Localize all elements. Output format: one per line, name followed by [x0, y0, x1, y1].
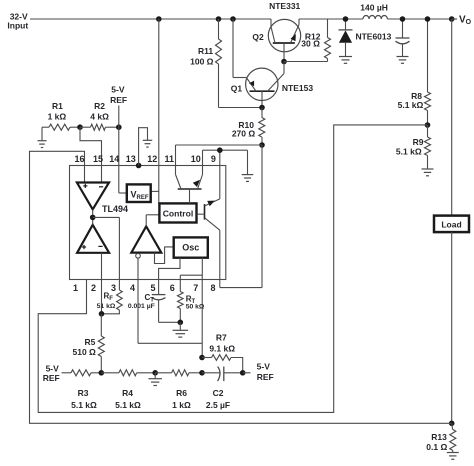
ground of output cap	[397, 57, 409, 64]
svg-text:5-V: 5-V	[111, 85, 125, 95]
node pin 13	[136, 163, 142, 169]
op-amp error amp 2 (bottom)	[77, 225, 109, 253]
label R7 9.1kΩ	[209, 333, 235, 354]
svg-text:12: 12	[147, 154, 157, 164]
svg-text:140 µH: 140 µH	[360, 2, 388, 12]
svg-text:100 Ω: 100 Ω	[190, 57, 214, 67]
label R4 5.1kΩ	[115, 388, 141, 410]
svg-text:0.1 Ω: 0.1 Ω	[426, 442, 447, 452]
node R8/R9 junction	[425, 122, 431, 128]
wire output rail (emitter to Vo)	[299, 18, 452, 20]
wire load to R13	[451, 232, 453, 423]
label R6 1kΩ	[172, 388, 191, 410]
inductor 140 µH	[363, 15, 387, 19]
svg-text:13: 13	[126, 154, 136, 164]
node CT/RT junction	[178, 320, 184, 326]
resistor R11	[216, 19, 222, 108]
resistor R12	[325, 19, 331, 62]
label CT	[145, 293, 155, 304]
label 51 kΩ	[97, 303, 116, 310]
svg-text:5: 5	[150, 283, 155, 293]
label C2 2.5µF	[206, 388, 230, 410]
svg-text:9: 9	[211, 154, 216, 164]
wire to R6	[155, 372, 171, 374]
wire pin 13 to ground	[139, 128, 148, 166]
svg-text:C2: C2	[213, 388, 224, 398]
wire Q1 emitter feed	[233, 19, 246, 78]
label RT	[186, 294, 196, 305]
transistor Q1 (NTE153)	[246, 62, 284, 108]
wire 5-V REF to pin 14	[119, 106, 127, 194]
label 0.001 µF	[128, 303, 155, 310]
wire pin 12 Vcc	[151, 19, 159, 203]
label 5-V REF bottom-left	[43, 363, 60, 383]
svg-text:4: 4	[130, 283, 135, 293]
wire pin 2	[101, 253, 103, 314]
resistor R3	[71, 370, 91, 376]
comparator dead-time	[131, 226, 161, 252]
label NTE153	[282, 83, 313, 93]
node row ground junction	[152, 370, 158, 376]
resistor RF 51kΩ	[102, 290, 123, 314]
pin numbers bottom row 1-8	[73, 283, 216, 293]
wire to 5-V REF right	[243, 372, 251, 374]
node R5/R3/R4 junction	[99, 370, 105, 376]
wire pin 4 dead-time control	[138, 258, 202, 343]
resistor R1	[42, 124, 80, 130]
block Control	[159, 203, 196, 222]
wire to R4	[101, 372, 119, 374]
label NTE331	[269, 1, 300, 11]
wire 32-V input rail	[30, 18, 271, 20]
svg-text:5-V: 5-V	[46, 363, 60, 373]
resistor R10	[259, 108, 265, 146]
node rail/pin12 junction	[156, 16, 162, 22]
node rail/cap junction	[400, 16, 406, 22]
svg-text:NTE6013: NTE6013	[355, 31, 391, 41]
wire pin 11 to R10	[176, 145, 263, 175]
ground of emitters	[242, 175, 254, 182]
svg-text:Q1: Q1	[231, 84, 243, 94]
wire CT to RT junction	[159, 321, 181, 323]
wire comparator output to control	[146, 215, 159, 227]
svg-text:5-V: 5-V	[257, 362, 271, 372]
node rail/diode junction	[343, 16, 349, 22]
wire R11 to Q1 base	[219, 107, 263, 109]
svg-text:1: 1	[73, 283, 78, 293]
ground of R13	[447, 453, 459, 460]
svg-text:7: 7	[193, 283, 198, 293]
node EA output junction	[90, 215, 96, 221]
label R5 510Ω	[73, 337, 97, 357]
wire osc to pin 5	[159, 258, 180, 295]
pin numbers top row 16-9	[74, 154, 215, 164]
svg-text:1 kΩ: 1 kΩ	[172, 400, 191, 410]
label Q2	[252, 32, 264, 42]
resistor RT 50kΩ	[178, 275, 184, 322]
resistor R5	[98, 314, 104, 373]
svg-text:Control: Control	[163, 208, 194, 218]
wire outer ground loop pin16	[30, 151, 452, 423]
svg-text:4 kΩ: 4 kΩ	[90, 112, 109, 122]
block Osc	[174, 237, 208, 257]
ground of pin 13	[143, 140, 153, 147]
svg-text:R11: R11	[198, 46, 213, 56]
svg-text:REF: REF	[110, 95, 127, 105]
svg-text:NTE331: NTE331	[269, 1, 300, 11]
label R12 30Ω	[301, 32, 320, 49]
svg-text:1 kΩ: 1 kΩ	[48, 112, 67, 122]
svg-text:R9: R9	[413, 137, 424, 147]
svg-text:30 Ω: 30 Ω	[301, 39, 320, 49]
node rail/R11 junction	[216, 16, 222, 22]
label R10 270Ω	[232, 120, 256, 139]
svg-text:5.1 kΩ: 5.1 kΩ	[396, 147, 422, 157]
wire osc to pin 6	[180, 258, 202, 276]
label R3 5.1kΩ	[71, 388, 97, 410]
label R9 5.1kΩ	[396, 137, 424, 157]
node R10 bottom junction	[259, 142, 265, 148]
op-amp error amp 1 (top)	[77, 183, 109, 210]
wire pin 7 ground	[201, 275, 203, 357]
node rail/Q1-emitter junction	[230, 16, 236, 22]
bubble on comparator input	[136, 254, 141, 259]
wire feedback divider to pin1 loop	[38, 125, 427, 413]
label Vo	[459, 14, 472, 26]
wire bottom row left	[62, 372, 72, 374]
wire pins 9,10 emitters to ground	[203, 150, 248, 199]
node R1/R2 junction	[77, 124, 83, 130]
wire EA outputs	[92, 209, 94, 224]
svg-text:10: 10	[191, 154, 201, 164]
label R1 1kΩ	[48, 101, 67, 122]
resistor R9	[425, 125, 431, 169]
label 32-V Input	[7, 11, 28, 30]
load box	[434, 216, 469, 233]
label RF	[104, 292, 114, 303]
svg-text:14: 14	[109, 154, 119, 164]
ground of divider row	[148, 373, 162, 386]
resistor R13	[450, 423, 456, 452]
node bottom rail/R13 junction	[449, 421, 455, 427]
wire Q2 base to R12	[284, 61, 328, 63]
wire R6 to pin7 node	[189, 372, 202, 374]
svg-text:REF: REF	[43, 373, 60, 383]
svg-text:6: 6	[170, 283, 175, 293]
svg-text:5.1 kΩ: 5.1 kΩ	[398, 100, 424, 110]
capacitor output filter	[396, 19, 410, 56]
transistor internal T1	[176, 175, 203, 204]
svg-text:16: 16	[74, 154, 84, 164]
label 50 kΩ	[186, 304, 205, 311]
svg-text:NTE153: NTE153	[282, 83, 313, 93]
svg-text:REF: REF	[257, 372, 274, 382]
svg-text:11: 11	[164, 154, 174, 164]
label 5-V REF bottom-right	[257, 362, 274, 383]
wire pin 16 into EA	[84, 166, 86, 183]
ground of diode	[339, 57, 352, 64]
label R2 4kΩ	[90, 101, 109, 122]
svg-text:8: 8	[210, 283, 215, 293]
node RF/R5/pin2 junction	[99, 311, 105, 317]
node pin7/R7/C2 junction	[199, 370, 205, 376]
svg-text:3: 3	[111, 283, 116, 293]
node Q2-base junction	[281, 59, 287, 65]
svg-text:R7: R7	[216, 333, 227, 343]
resistor R7 9.1kΩ	[202, 355, 243, 373]
label 140 µH	[360, 2, 388, 12]
node rail/R8 junction	[425, 16, 431, 22]
wire Vo to load	[451, 19, 453, 216]
label 5-V REF top	[110, 85, 127, 105]
resistor R6	[172, 370, 189, 376]
label Q1	[231, 84, 243, 94]
svg-text:15: 15	[93, 154, 103, 164]
svg-text:5.1 kΩ: 5.1 kΩ	[115, 400, 141, 410]
diode NTE6013	[339, 19, 353, 56]
ground of R9	[422, 169, 434, 176]
node R2/5V-REF junction	[116, 124, 122, 130]
svg-text:R4: R4	[122, 388, 133, 398]
transistor Q2 (NTE331)	[268, 19, 300, 62]
svg-text:R2: R2	[94, 101, 105, 111]
label NTE6013	[355, 31, 391, 41]
svg-text:270 Ω: 270 Ω	[232, 129, 256, 139]
svg-text:R5: R5	[84, 337, 95, 347]
resistor R2	[80, 124, 119, 130]
svg-text:R1: R1	[52, 101, 63, 111]
svg-text:Q2: Q2	[252, 32, 264, 42]
svg-text:0.001 µF: 0.001 µF	[128, 303, 155, 310]
label TL494	[102, 204, 128, 214]
svg-text:50 kΩ: 50 kΩ	[186, 304, 205, 311]
resistor R8	[425, 19, 431, 125]
wire pin 8 to R10 node	[220, 145, 262, 288]
svg-text:R6: R6	[176, 388, 187, 398]
svg-text:R13: R13	[431, 432, 447, 442]
transistor internal T2	[197, 199, 220, 230]
node C2/R7 right junction	[240, 370, 246, 376]
capacitor CT 0.001µF	[152, 295, 166, 323]
label R8 5.1kΩ	[398, 91, 424, 110]
node Vo terminal	[449, 16, 457, 22]
wire R3 to R5 node	[91, 372, 101, 374]
ground of CT/RT	[173, 322, 189, 337]
svg-text:Load: Load	[441, 219, 461, 229]
label R13 0.1Ω	[426, 432, 447, 452]
svg-text:5.1 kΩ: 5.1 kΩ	[71, 400, 97, 410]
node R7 top junction	[199, 355, 205, 361]
svg-text:Osc: Osc	[182, 243, 199, 253]
node pin 9 junction	[217, 147, 223, 153]
svg-text:R3: R3	[78, 388, 89, 398]
node Q1-base junction	[259, 105, 265, 111]
label R11 100Ω	[190, 46, 214, 67]
block Vref	[127, 184, 151, 202]
IC TL494 outline	[70, 166, 226, 280]
svg-text:2: 2	[91, 283, 96, 293]
wire EA output to pin 3	[93, 217, 120, 290]
svg-text:9.1 kΩ: 9.1 kΩ	[209, 344, 235, 354]
svg-text:TL494: TL494	[102, 204, 128, 214]
wire R4 to ground node	[137, 372, 156, 374]
svg-text:51 kΩ: 51 kΩ	[97, 303, 116, 310]
wire R1R2 divider to pin 15	[80, 127, 102, 182]
svg-text:510 Ω: 510 Ω	[73, 347, 97, 357]
wire comparator input from osc	[155, 247, 174, 264]
svg-text:2.5 µF: 2.5 µF	[206, 400, 230, 410]
resistor R4	[119, 370, 137, 376]
capacitor C2 2.5µF	[202, 367, 243, 382]
ground of R1	[38, 127, 47, 147]
svg-text:Input: Input	[7, 20, 28, 30]
